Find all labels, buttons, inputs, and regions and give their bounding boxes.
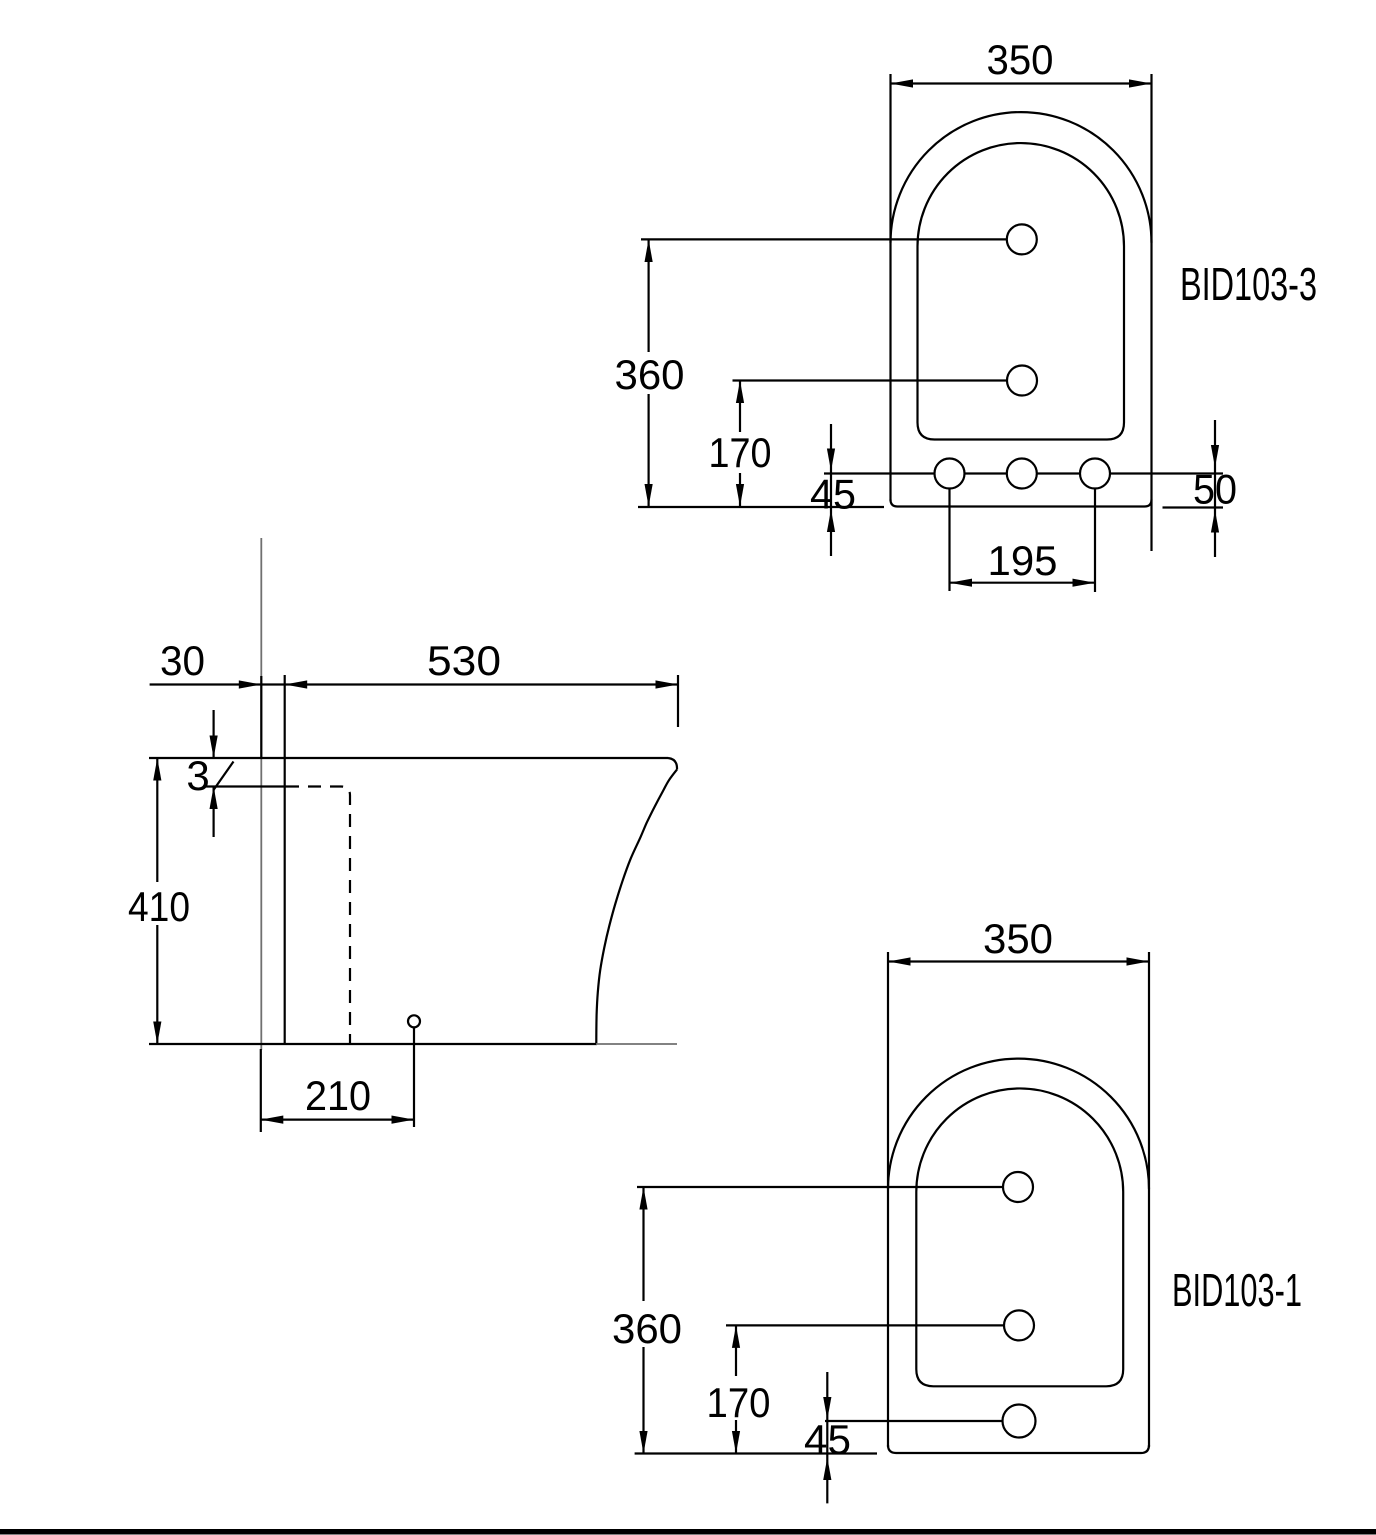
left extension of body bottom bbox=[638, 506, 884, 508]
arrowhead 360 up bbox=[645, 239, 653, 262]
svg-text:350: 350 bbox=[987, 36, 1054, 83]
arrowhead 530 right bbox=[656, 680, 679, 688]
svg-text:45: 45 bbox=[804, 1416, 851, 1463]
dim line 350 bottom view bbox=[888, 960, 1149, 962]
bottom row hole right bbox=[1080, 459, 1110, 489]
extension + body left edge line bbox=[889, 74, 891, 501]
arrowhead 360b up bbox=[639, 1187, 647, 1210]
svg-text:360: 360 bbox=[615, 351, 685, 398]
svg-text:BID103-1: BID103-1 bbox=[1172, 1264, 1302, 1316]
dim 45b upper segment with down arrow bbox=[826, 1372, 828, 1503]
leader line to middle hole bbox=[733, 379, 1023, 381]
arrowhead 30 (points right at wall) bbox=[239, 680, 261, 688]
dim 3 lower arrow (up) bbox=[213, 787, 215, 838]
faucet hole b bbox=[1003, 1172, 1033, 1202]
faucet hole bbox=[1007, 224, 1037, 254]
top surface line bbox=[149, 757, 668, 759]
body left edge + extension bbox=[887, 952, 889, 1447]
arrowhead 170b down bbox=[732, 1431, 740, 1454]
body outer top semicircular arc bbox=[888, 1059, 1149, 1190]
bottom hole b bbox=[1003, 1405, 1036, 1438]
svg-text:350: 350 bbox=[983, 915, 1053, 962]
dim 170b vertical line (broken for text) bbox=[735, 1325, 737, 1376]
rim ledge line (solid part) bbox=[203, 785, 286, 787]
leader line through bottom hole row bbox=[824, 472, 1223, 474]
right extension line at 506 bbox=[1163, 506, 1224, 508]
arrowhead 210 right bbox=[392, 1116, 415, 1124]
svg-text:195: 195 bbox=[988, 537, 1058, 584]
leader line to faucet hole b bbox=[637, 1186, 1018, 1188]
arrowhead 210 left bbox=[261, 1116, 284, 1124]
arrowhead 195 left bbox=[950, 579, 973, 587]
body bottom edge rounded corners bbox=[888, 1445, 1149, 1453]
dim 3 slash tick bbox=[214, 762, 234, 791]
bottom row hole center bbox=[1007, 459, 1037, 489]
arrowhead 530 left (points left at body back) bbox=[285, 680, 308, 688]
dim 210 line bbox=[261, 1118, 414, 1120]
middle hole bbox=[1007, 366, 1037, 396]
bottom extension line left of body bbox=[635, 1452, 877, 1454]
dim 410 vertical line (broken for text) bbox=[156, 758, 158, 882]
leader line to faucet hole bbox=[641, 238, 1022, 240]
body back edge bbox=[284, 675, 286, 1044]
body right edge + extension bbox=[1148, 952, 1150, 1447]
dim 360b vertical line (broken for text) bbox=[642, 1187, 644, 1301]
dim 3 upper arrow (down) bbox=[213, 710, 215, 758]
dim 170 vertical line (broken for text) bbox=[739, 381, 741, 433]
dim 360 vertical line (broken for text) bbox=[647, 239, 649, 352]
530 right extension line bbox=[677, 675, 679, 727]
dim 195 right extension line bbox=[1094, 489, 1096, 593]
dim 210 left extension line bbox=[260, 1049, 262, 1132]
arrowhead 170 down bbox=[736, 484, 744, 507]
leader line to bottom hole b bbox=[825, 1420, 1019, 1422]
inner rim / basin outline bbox=[918, 143, 1125, 439]
svg-text:410: 410 bbox=[128, 883, 190, 930]
floor line gray part under front bbox=[596, 1043, 677, 1045]
drain hole small circle bbox=[408, 1015, 420, 1027]
dim 195 line bbox=[950, 582, 1096, 584]
dim 45 upper segment with down arrow bbox=[830, 424, 832, 556]
arrowhead 350 right bbox=[1129, 79, 1152, 87]
svg-text:170: 170 bbox=[709, 429, 772, 476]
bottom row hole left bbox=[935, 459, 965, 489]
svg-text:170: 170 bbox=[707, 1379, 771, 1426]
middle hole b bbox=[1004, 1310, 1034, 1340]
arrowhead 410 up bbox=[153, 758, 161, 781]
arrowhead 170b up bbox=[732, 1325, 740, 1348]
arrowhead 350 left bbox=[891, 79, 914, 87]
svg-text:530: 530 bbox=[427, 637, 501, 684]
body bottom edge with rounded corners bbox=[891, 500, 1152, 507]
svg-text:50: 50 bbox=[1193, 466, 1237, 513]
arrowhead 410 down bbox=[153, 1022, 161, 1045]
front profile curve bbox=[596, 770, 677, 1045]
arrowhead 195 right bbox=[1073, 579, 1096, 587]
floor line bbox=[149, 1043, 597, 1045]
inner rim / basin outline bbox=[916, 1088, 1123, 1386]
rim ledge dashed continuation with corner bbox=[286, 787, 350, 1045]
arrowhead 350b right bbox=[1127, 957, 1150, 965]
body outer top semicircular arc bbox=[891, 112, 1152, 243]
arrowhead 350b left bbox=[888, 957, 911, 965]
drain extension line down from hole bbox=[413, 1021, 415, 1127]
leader line to middle hole b bbox=[726, 1324, 1019, 1326]
wall line black segment (30 dim extension) bbox=[260, 676, 262, 758]
dim line 350 top bbox=[891, 82, 1152, 84]
svg-text:30: 30 bbox=[160, 637, 205, 684]
dim line 30 / 530 bbox=[150, 683, 678, 685]
svg-text:45: 45 bbox=[810, 471, 856, 518]
arrowhead 360 down bbox=[645, 484, 653, 507]
svg-text:3: 3 bbox=[186, 752, 209, 799]
extension + body right edge line (runs past bottom) bbox=[1150, 74, 1152, 551]
svg-text:210: 210 bbox=[305, 1072, 371, 1119]
border strip bottom bbox=[0, 1529, 1376, 1535]
svg-text:BID103-3: BID103-3 bbox=[1180, 258, 1317, 310]
arrowhead 170 up bbox=[736, 381, 744, 404]
wall line (gray, behind/above fixture) bbox=[260, 538, 262, 1050]
svg-text:360: 360 bbox=[612, 1305, 682, 1352]
dim 50 upper segment with down arrow bbox=[1214, 420, 1216, 557]
arrowhead 360b down bbox=[639, 1431, 647, 1454]
front lip tip arc bbox=[668, 758, 677, 770]
dim 195 left extension line bbox=[948, 489, 950, 592]
